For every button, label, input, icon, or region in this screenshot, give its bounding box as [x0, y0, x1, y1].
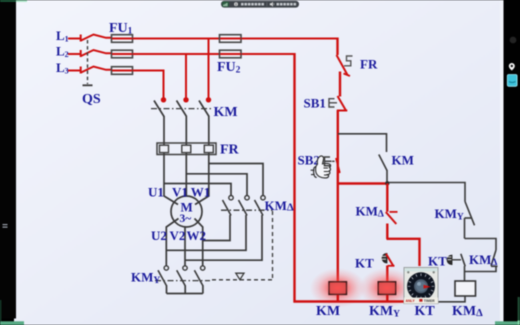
KT timer photo [404, 268, 438, 304]
coil KM [329, 282, 347, 295]
wire KM-delta pole2 to U2 [166, 215, 246, 250]
fuse FU2 pole2 [220, 50, 242, 58]
right bar faint circle icon [510, 37, 517, 44]
wire KM-delta pole1 to W2 [203, 215, 230, 241]
contact KT NO delayed [447, 255, 452, 264]
coil KM-Y glow [359, 268, 415, 308]
contactor KM-delta pole2 [245, 196, 249, 200]
svg-text:TIMER: TIMER [424, 299, 435, 303]
fuse FU1 pole3 [112, 67, 133, 75]
wire branch to KT coil [387, 239, 420, 266]
wire drop L2 to KM pole2 [185, 53, 187, 98]
contactor KM-Y pole3 [201, 266, 205, 270]
button SB1 NC [338, 96, 346, 110]
wire coil KM to bus [337, 295, 339, 303]
QS linkage dashed [87, 40, 89, 84]
switch QS pole 1 [80, 35, 82, 42]
wire to KM-delta coil [464, 266, 466, 281]
top green line [0, 0, 16, 2]
mechanical link dashed to KM-delta [212, 279, 273, 281]
wire junction row [337, 182, 388, 184]
wire KM pole2 down [185, 116, 187, 197]
svg-text:KM: KM [316, 304, 340, 319]
svg-text:ANLY: ANLY [406, 299, 416, 303]
contact KT NC delayed [382, 254, 387, 263]
svg-text:U2: U2 [151, 228, 167, 243]
coil KM-Y [378, 282, 396, 295]
wire bottom bus red [294, 300, 405, 302]
contactor KM-Y pole2 [183, 266, 187, 270]
KM-Y linkage dash-dot [155, 280, 210, 282]
wire V1 branch to KM-delta pole2 [186, 174, 247, 196]
contactor KM pole2 [183, 97, 188, 102]
wire L2 in [68, 53, 80, 55]
fuse FU1 pole2 [112, 50, 133, 58]
wire V2 from motor [184, 227, 186, 266]
wire L3 in [68, 70, 80, 72]
right bar white pin icon [509, 63, 515, 71]
svg-text:U1: U1 [148, 185, 164, 200]
wire left control rail (from L2) [293, 53, 295, 303]
wire drop L3 to KM pole1 [163, 70, 165, 98]
svg-text:QS: QS [82, 92, 101, 107]
svg-text:FR: FR [360, 57, 378, 72]
FR heater pole1 [160, 145, 169, 152]
KM-delta linkage dash-dot [221, 209, 273, 211]
wire W1 branch to KM-delta pole3 [209, 164, 263, 196]
wire U1 to motor [164, 196, 178, 205]
hand press icon [316, 156, 331, 178]
svg-text:V2: V2 [170, 228, 186, 243]
motor M circle [171, 196, 202, 227]
FR NC contact [337, 55, 348, 75]
wire KM-delta pole3 to V2 [185, 215, 262, 260]
bottom-right green corner [518, 297, 520, 325]
switch QS pole 3 [80, 67, 82, 74]
linkage triangle marker [236, 273, 244, 280]
FR heater pole3 [204, 145, 213, 152]
coil KM-delta [455, 281, 476, 296]
junction node [385, 181, 389, 185]
wire L1 in [68, 38, 80, 40]
right black bar [504, 0, 520, 325]
wire W1 to motor [195, 196, 209, 205]
svg-text:KM: KM [392, 153, 414, 168]
contact KM aux latch [338, 134, 387, 152]
wire L3 bus [133, 70, 164, 72]
svg-text:W2: W2 [187, 228, 207, 243]
wire L1 bus [133, 38, 220, 40]
wire W2 from motor [195, 219, 203, 266]
wire U2 from motor [166, 219, 178, 266]
star point bar [167, 285, 203, 293]
contactor KM-delta pole3 [261, 196, 265, 200]
bottom-left green strip [0, 321, 24, 325]
wire drop L1 to KM pole3 [208, 38, 210, 98]
wire rail SB1 to SB2 [337, 111, 339, 184]
button SB2 NO pressed [336, 158, 340, 173]
top toolbar pill [221, 1, 299, 8]
coil KM glow [310, 268, 366, 308]
contact KM-delta NC interlock [386, 183, 388, 212]
svg-text:V1: V1 [172, 185, 188, 200]
wire L2 bus [133, 53, 220, 55]
contactor KM pole1 [161, 97, 166, 102]
wire through fuses [112, 39, 241, 71]
FR heater pole2 [182, 145, 191, 152]
svg-text:FR: FR [220, 143, 240, 158]
right edge light column [500, 0, 504, 325]
switch QS pole 2 [80, 50, 82, 57]
svg-text:KT: KT [415, 304, 436, 319]
wire U1 branch to KM-delta pole1 [164, 184, 231, 196]
left bar glyph [3, 224, 8, 225]
svg-text:3~: 3~ [180, 213, 192, 225]
left black bar [0, 2, 16, 319]
svg-text:KT: KT [428, 254, 447, 269]
wire KM pole3 down [208, 116, 210, 197]
svg-text:KM: KM [214, 105, 238, 120]
contact KM-Y aux NO [465, 202, 475, 226]
right bar teal app icon [507, 75, 517, 87]
wire coil KM-Y to bus [386, 295, 388, 303]
svg-text:SB1: SB1 [304, 96, 326, 111]
contact KM-delta latch parallel [465, 239, 497, 251]
KM linkage dash-dot [151, 108, 213, 110]
wire rail to KM coil [337, 183, 339, 282]
thermal relay FR box [157, 143, 216, 155]
svg-text:KT: KT [355, 256, 374, 271]
wire right control rail top (from L1) [336, 38, 338, 56]
svg-text:W1: W1 [191, 185, 211, 200]
wire branch right black [389, 183, 465, 202]
contactor KM-delta pole1 [229, 196, 233, 200]
wire coil KM-delta to bus [438, 296, 466, 302]
fuse FU1 pole1 [112, 35, 133, 43]
contactor KM pole3 [206, 97, 211, 102]
wire KM pole1 down [163, 116, 165, 197]
contactor KM-Y pole1 [164, 266, 168, 270]
fuse FU2 pole1 [220, 35, 242, 43]
